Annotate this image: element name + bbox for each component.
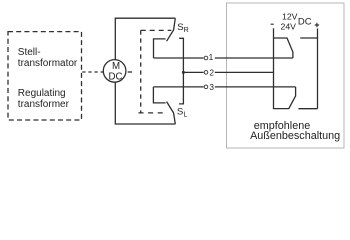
contact bracket SL: [153, 87, 165, 103]
linkage: shaft to SL blade (dashed): [139, 112, 168, 114]
fixed contact stub + common vertical to wire 2: [179, 38, 183, 104]
svg-text:Stell-: Stell-: [18, 47, 41, 58]
svg-text:DC: DC: [109, 71, 123, 82]
wire 3 right segment (pentagon 2 top edge): [215, 86, 296, 88]
svg-text:24V: 24V: [281, 22, 297, 32]
label: Stell-transformator / Regulating transformer: [18, 47, 78, 110]
switch SR blade: [167, 18, 176, 41]
svg-text:transformer: transformer: [18, 99, 70, 110]
terminal circle 1: [204, 56, 208, 60]
svg-text:3: 3: [209, 82, 214, 92]
wire 2 left segment: [183, 71, 203, 73]
plus rail (right): [317, 29, 319, 109]
minus sign: [271, 23, 274, 25]
junction dot wire 2: [182, 71, 185, 74]
label SL: [177, 107, 188, 119]
connector contact 3 (pentagon bottom): [273, 87, 296, 109]
svg-text:L: L: [183, 110, 187, 119]
wire 1 right segment (into pentagon 1 bottom): [215, 57, 293, 59]
svg-text:transformator: transformator: [18, 58, 78, 69]
terminal circle 3: [204, 85, 208, 89]
wire 1 left segment: [154, 57, 204, 59]
linkage: motor to shaft (dash): [128, 71, 132, 73]
linkage shaft (dashed vertical): [140, 30, 142, 113]
svg-text:Regulating: Regulating: [18, 88, 66, 99]
wire: motor loop upper left + top edge: [115, 18, 175, 59]
label 12V 24V DC +: [281, 11, 312, 31]
plus sign: [315, 23, 319, 27]
linkage: transformer to motor (dashed): [82, 71, 103, 73]
terminal circle 2: [204, 71, 208, 75]
svg-text:DC: DC: [298, 17, 312, 28]
dashed box: Stell-transformator: [8, 32, 82, 120]
wire 2 right segment to minus rail: [215, 71, 274, 73]
linkage: shaft to SR blade (dashed): [141, 29, 172, 31]
svg-text:S: S: [177, 107, 183, 118]
svg-text:R: R: [184, 25, 189, 34]
enclosure box: empfohlene Aussenbeschaltung: [227, 3, 345, 148]
wire 3 left segment: [153, 86, 203, 88]
label: empfohlene Aussenbeschaltung: [250, 120, 340, 142]
switch SL blade: [167, 102, 176, 124]
svg-text:12V: 12V: [282, 11, 298, 21]
svg-text:Außenbeschaltung: Außenbeschaltung: [250, 130, 340, 142]
motor M DC: [103, 60, 126, 83]
contact bracket SR: [154, 39, 166, 58]
plus rail top lead: [300, 37, 317, 39]
plus rail bottom lead: [298, 108, 317, 110]
wire: motor loop lower left + bottom edge: [115, 82, 175, 124]
connector contact 1 (pentagon top): [274, 38, 293, 58]
minus rail (left): [273, 28, 275, 108]
svg-text:2: 2: [209, 67, 214, 77]
label SR: [177, 22, 189, 34]
svg-text:1: 1: [209, 52, 214, 62]
